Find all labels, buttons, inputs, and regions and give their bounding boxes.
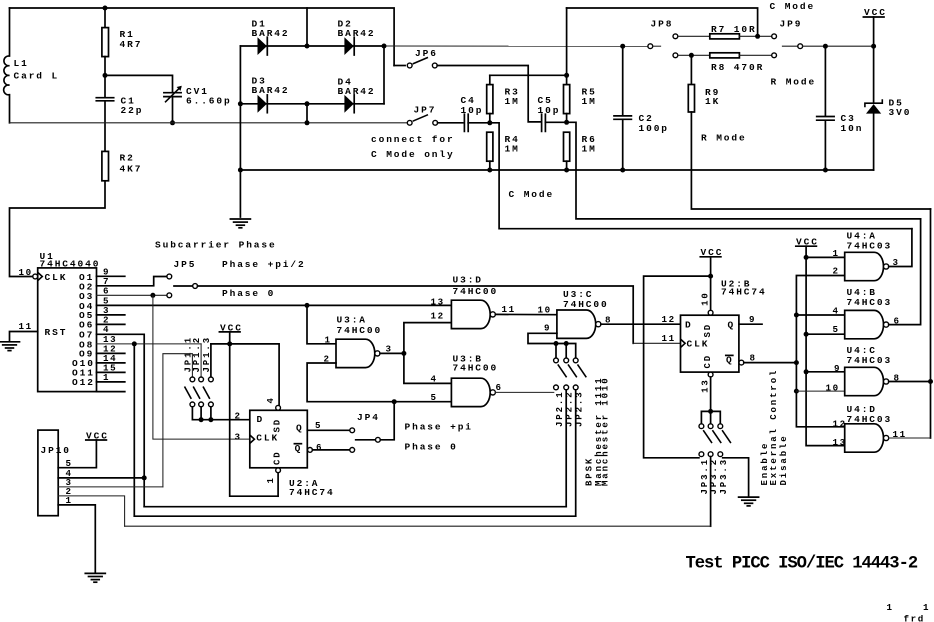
svg-text:3: 3 [235, 432, 242, 443]
svg-text:1: 1 [923, 602, 930, 613]
svg-text:74HC00: 74HC00 [453, 286, 499, 297]
svg-text:BAR42: BAR42 [252, 85, 290, 96]
wire top rail [10, 8, 395, 66]
node R6 rail junction [564, 168, 569, 173]
svg-text:22p: 22p [121, 105, 144, 116]
diode D2 [338, 19, 376, 55]
power VCC top right [863, 7, 886, 46]
wire U4:B pin4 [796, 314, 844, 316]
resistor R7 [678, 24, 772, 39]
wire D3-D4 row [240, 103, 384, 105]
pin O7 wire down [97, 334, 145, 506]
wire C-mode branch right [567, 122, 921, 219]
node R8-R9 junction [689, 53, 694, 58]
svg-text:1M: 1M [582, 96, 597, 107]
ground below diode ladder [230, 219, 250, 228]
svg-text:9: 9 [834, 363, 841, 374]
pin O11 stub [97, 371, 125, 373]
svg-text:10n: 10n [841, 123, 864, 134]
wire JP2.3 to bus2 [575, 390, 577, 516]
wire JP3.2 to bus3 [710, 457, 712, 527]
svg-text:1: 1 [103, 372, 110, 383]
nand gate U4:A 74HC03 [833, 231, 900, 281]
pin U2:B Qbar wire [739, 360, 744, 365]
svg-text:CD: CD [703, 354, 713, 369]
node VCC junction [227, 341, 232, 346]
wire D4 riser [383, 46, 385, 104]
resistor R5 [564, 8, 597, 122]
svg-text:11: 11 [502, 304, 516, 315]
svg-text:5: 5 [315, 420, 322, 431]
wire U4:B out [889, 219, 921, 325]
node JP1 tie junctions [199, 417, 204, 422]
diode D3 [252, 76, 290, 113]
node top-left junction [103, 6, 108, 11]
capacitor C1 [96, 75, 143, 151]
svg-text:C Mode: C Mode [509, 189, 555, 200]
wire JP10 pin4 [58, 477, 144, 479]
node VCC pin5 junction [804, 332, 809, 337]
svg-text:10: 10 [538, 304, 552, 315]
svg-text:12: 12 [431, 310, 445, 321]
wire D-row to low rail [306, 104, 308, 123]
jumper JP9 [772, 18, 874, 57]
nand gate U4:B 74HC03 [833, 287, 901, 339]
svg-text:Card L: Card L [14, 71, 60, 82]
nand gate U3:B 74HC00 [431, 353, 503, 406]
svg-text:CLK: CLK [687, 339, 710, 350]
svg-text:9: 9 [544, 323, 551, 334]
svg-text:10: 10 [19, 267, 33, 278]
jumper JP6 [394, 48, 540, 122]
node C4-R3-R4 junction [487, 120, 492, 125]
svg-text:1M: 1M [582, 143, 597, 154]
svg-text:4: 4 [431, 374, 438, 385]
resistor R9 [688, 55, 930, 209]
svg-text:Phase +pi/2: Phase +pi/2 [222, 259, 306, 270]
node R5 top junction [564, 73, 569, 78]
svg-text:R7 10R: R7 10R [711, 24, 757, 35]
svg-text:frd: frd [904, 614, 925, 622]
svg-text:1: 1 [266, 476, 276, 483]
wire U3:C pin9 hook [528, 333, 576, 358]
jumper JP4 [350, 402, 394, 453]
capacitor C2 [614, 46, 669, 170]
svg-text:74HC03: 74HC03 [847, 414, 893, 425]
node top-rail drop junction [305, 44, 310, 49]
wire JP10.3 riser to JP1 col1 [163, 354, 193, 487]
svg-text:Disable: Disable [779, 434, 789, 485]
wire U3:B output to JP2.1 [495, 391, 553, 393]
svg-text:5: 5 [833, 324, 840, 335]
pin O3 wire to JP5 [97, 294, 167, 296]
wire top rail right [567, 8, 758, 36]
node C2 rail junction [620, 168, 625, 173]
svg-text:BAR42: BAR42 [338, 86, 376, 97]
svg-text:4R7: 4R7 [120, 39, 143, 50]
wire U3:C output to U2:B D [601, 323, 681, 325]
svg-text:12: 12 [833, 418, 847, 429]
nand gate U3:C 74HC00 [538, 289, 613, 338]
svg-text:74HC00: 74HC00 [337, 325, 383, 336]
svg-text:JP4: JP4 [357, 412, 380, 423]
wire JP2.2 to bus1 [565, 390, 567, 507]
svg-text:CLK: CLK [256, 432, 279, 443]
resistor R4 [487, 132, 520, 170]
jumper block JP3 [699, 424, 731, 495]
svg-text:4K7: 4K7 [120, 164, 143, 175]
svg-text:R8 470R: R8 470R [711, 62, 764, 73]
jumper JP8 [648, 18, 678, 57]
svg-text:10p: 10p [461, 105, 484, 116]
svg-text:R Mode: R Mode [701, 132, 747, 143]
node VCC U2B junction [708, 274, 713, 279]
svg-text:74HC00: 74HC00 [453, 362, 499, 373]
svg-text:13: 13 [431, 296, 445, 307]
pin O2 wire to JP5 [97, 277, 167, 286]
wire bus1 [144, 506, 566, 508]
connector JP10 [38, 430, 73, 516]
wire low rail to JP7 [10, 122, 408, 124]
svg-text:BAR42: BAR42 [252, 28, 290, 39]
svg-text:BPSK: BPSK [585, 457, 595, 486]
node rail junction [238, 168, 243, 173]
wire JP10 pin3 [58, 486, 163, 488]
svg-text:13: 13 [701, 378, 711, 393]
wire VCC to JP3.1 feed [644, 276, 711, 458]
wire O3 down to U2:A clk [153, 295, 250, 439]
flip-flop U2:B 74HC74 [662, 278, 767, 393]
capacitor C5 [538, 95, 567, 131]
wire D1-D2 row [240, 45, 384, 47]
wire JP1 bottom tie to U2:A D [192, 407, 249, 420]
diode D1 [252, 19, 290, 55]
nand gate U3:A 74HC00 [324, 314, 393, 367]
svg-text:2: 2 [235, 411, 242, 422]
diode ladder vertical [239, 46, 241, 217]
nand gate U4:D 74HC03 [833, 404, 907, 452]
svg-text:C Mode: C Mode [770, 1, 816, 12]
svg-text:74HC74: 74HC74 [289, 487, 335, 498]
wire JP3 bracket [701, 411, 720, 423]
wire U3:A output [380, 352, 404, 354]
power VCC at JP1 [219, 322, 242, 344]
pin U2:A Qbar wire [308, 448, 313, 453]
svg-text:External Control: External Control [769, 369, 779, 486]
svg-text:11: 11 [19, 321, 33, 332]
node signal pin4 junction [794, 313, 799, 318]
svg-text:Q: Q [296, 423, 304, 434]
node O8 branch junction [132, 341, 137, 346]
jumper JP7 [407, 105, 462, 126]
wire hook drops [555, 344, 557, 359]
ground at JP3 [739, 497, 759, 506]
resistor R3 [487, 75, 520, 123]
svg-text:D: D [685, 320, 693, 331]
node O3 branch junction [150, 293, 155, 298]
pin O10 stub [97, 362, 125, 364]
resistor R6 [564, 132, 597, 170]
node R7-toprail junction [755, 34, 760, 39]
svg-text:74HC4040: 74HC4040 [40, 258, 101, 269]
node hook junctions [554, 341, 559, 346]
diode D4 [338, 77, 376, 113]
wire R-mode column [930, 209, 932, 438]
svg-text:JP10: JP10 [41, 445, 71, 456]
svg-text:Test PICC ISO/IEC 14443-2: Test PICC ISO/IEC 14443-2 [686, 555, 918, 574]
svg-text:C Mode only: C Mode only [371, 149, 455, 160]
jumper JP1 circles [185, 377, 214, 407]
svg-text:U3:D: U3:D [453, 275, 483, 286]
svg-text:JP2.1: JP2.1 [555, 390, 565, 427]
inductor L1 [4, 8, 59, 123]
svg-text:1K: 1K [705, 96, 720, 107]
svg-text:11: 11 [662, 333, 676, 344]
svg-text:Q: Q [728, 320, 736, 331]
pin O6 stub [97, 323, 125, 325]
svg-text:JP7: JP7 [414, 105, 437, 116]
wire bus3 [125, 525, 711, 527]
jumper block JP2 [554, 358, 587, 427]
nand gate U3:D 74HC00 [431, 275, 516, 329]
svg-text:JP9: JP9 [780, 18, 803, 29]
wire VCC rail to U2:A SD [211, 344, 279, 405]
svg-text:JP1.2: JP1.2 [192, 336, 202, 373]
wire to U3:D pin12 [404, 323, 452, 354]
variable capacitor CV1 [164, 86, 232, 123]
wire U4:C out [889, 381, 931, 383]
svg-text:CD: CD [272, 450, 282, 465]
node O4 branch junction [305, 303, 310, 308]
svg-text:Phase 0: Phase 0 [222, 288, 275, 299]
svg-text:L1: L1 [14, 58, 29, 69]
svg-text:SD: SD [703, 323, 713, 338]
node U4:C out junction [928, 379, 933, 384]
node D2-D4 junction [382, 44, 387, 49]
node signal Qbar junction [794, 360, 799, 365]
power VCC at JP10 [86, 430, 109, 441]
svg-text:JP3.3: JP3.3 [719, 458, 729, 495]
wire U4:A pin1 [806, 256, 845, 258]
wire U3:D out to U3:C pin10 [495, 313, 557, 315]
pin U2:B Q stub [739, 323, 762, 325]
node R1-C1-CV1 junction [103, 73, 108, 78]
svg-text:JP5: JP5 [174, 259, 197, 270]
svg-text:6: 6 [316, 442, 323, 453]
jumper block JP1 labels [183, 336, 212, 373]
svg-text:D: D [257, 414, 265, 425]
wire JP10 pin1 to ground [58, 505, 95, 573]
svg-text:Phase +pi: Phase +pi [405, 422, 473, 433]
pin O9 stub [97, 352, 125, 354]
svg-text:JP6: JP6 [415, 48, 438, 59]
wire JP10 pin2 to bus3 [58, 496, 124, 526]
node VCC-D5 junction [871, 44, 876, 49]
svg-text:74HC03: 74HC03 [847, 355, 893, 366]
svg-text:74HC00: 74HC00 [563, 299, 609, 310]
pin U2:A Q wire [307, 429, 350, 431]
svg-text:1: 1 [833, 248, 840, 259]
svg-text:O12: O12 [72, 377, 95, 388]
wire U2:A CD link [277, 473, 279, 496]
svg-text:1: 1 [325, 334, 332, 345]
capacitor C3 [817, 46, 864, 170]
resistor R2 [10, 151, 143, 276]
node C2 top junction [620, 44, 625, 49]
svg-text:SD: SD [272, 418, 282, 433]
pin 16 stub [97, 391, 125, 393]
ground at JP10 [85, 573, 105, 582]
wire to CV1 [105, 75, 173, 92]
pin O8 wire [97, 343, 202, 345]
pin O4 long wire to U3:D pin13 [97, 304, 452, 306]
node VCC pin9 junction [804, 369, 809, 374]
ground at U1 RST [0, 342, 20, 351]
capacitor C4 [461, 95, 490, 131]
svg-text:1M: 1M [505, 96, 520, 107]
wire JP1 col3 feed [210, 344, 212, 377]
nand gate U4:C 74HC03 [826, 345, 901, 396]
svg-text:U3:A: U3:A [337, 314, 367, 325]
wire U4 signal column [796, 276, 844, 427]
svg-text:4: 4 [266, 396, 276, 403]
node D3 row junction [238, 101, 243, 106]
pin O5 stub [97, 314, 125, 316]
jumper JP5 [167, 259, 198, 298]
node CV1 bottom junction [170, 120, 175, 125]
wire JP5 common to U2:B clk drop [198, 286, 634, 343]
diode D5 zener [865, 46, 911, 170]
wire U4:D out [889, 437, 931, 439]
svg-text:10: 10 [701, 291, 711, 306]
power VCC at U2:B [700, 247, 723, 310]
node R4 rail junction [487, 168, 492, 173]
svg-text:6: 6 [496, 382, 503, 393]
resistor R8 [678, 53, 772, 73]
svg-text:connect for: connect for [371, 134, 455, 145]
wire U2:B CLK from phase drop [633, 342, 680, 344]
svg-text:RST: RST [45, 327, 68, 338]
svg-text:3V0: 3V0 [889, 107, 912, 118]
wire U1 RST [10, 332, 38, 342]
wire U2:B CD to JP3 bracket [710, 377, 712, 424]
node D-row junction [305, 101, 310, 106]
node bracket junction [708, 409, 713, 414]
wire JP1 col2 feed from O8 [200, 344, 202, 377]
node C5-R5-R6 junction [564, 120, 569, 125]
node U3:A out junction [401, 351, 406, 356]
wire R3-R5 top link [490, 74, 567, 76]
wire U4:B pin5 [806, 333, 845, 335]
svg-text:10: 10 [826, 383, 840, 394]
wire VCC down to U2:A CD [230, 344, 278, 496]
resistor R1 [102, 8, 142, 75]
wire U4:C pin9 [806, 371, 845, 373]
svg-text:Manchester 1010: Manchester 1010 [601, 376, 611, 486]
svg-text:13: 13 [833, 437, 847, 448]
pin O12 stub [97, 381, 125, 383]
svg-text:100p: 100p [639, 123, 669, 134]
pin O1 stub [97, 275, 125, 277]
svg-text:4: 4 [833, 306, 840, 317]
node pin4 junction [142, 475, 147, 480]
svg-text:JP8: JP8 [651, 18, 674, 29]
svg-text:2: 2 [833, 265, 840, 276]
wire U3:A pin2 from U3:B pin5 riser [307, 363, 451, 402]
svg-text:6..60p: 6..60p [186, 95, 232, 106]
wire U4:A out [889, 229, 912, 267]
svg-text:1M: 1M [505, 143, 520, 154]
wire drop from top rail [306, 8, 308, 46]
svg-text:74HC03: 74HC03 [847, 297, 893, 308]
svg-text:74HC74: 74HC74 [721, 287, 767, 298]
power VCC at U4 [796, 237, 845, 446]
node low rail junction [305, 120, 310, 125]
wire C-mode branch left [490, 123, 912, 229]
node C3 rail junction [823, 168, 828, 173]
svg-text:5: 5 [431, 392, 438, 403]
svg-text:R Mode: R Mode [771, 76, 817, 87]
svg-text:R2: R2 [120, 153, 135, 164]
node VCC pin1 junction [804, 255, 809, 260]
wire to U3:B pin4 [404, 353, 452, 383]
svg-text:CLK: CLK [45, 272, 68, 283]
node signal pin10 junction [794, 389, 799, 394]
svg-text:1: 1 [887, 602, 894, 613]
wire ground rail [240, 169, 873, 171]
wire JP3.3 to ground [723, 458, 749, 497]
wire O8 down to bus [133, 344, 135, 516]
wire bus2 [134, 515, 575, 517]
node JP9-C3 junction [823, 44, 828, 49]
svg-text:12: 12 [662, 314, 676, 325]
wire U4:C pin10 [796, 390, 844, 392]
wire O4 branch to U3:A pin1 [307, 305, 336, 343]
node JP4 junction [392, 399, 397, 404]
IC U1 74HC4040 [19, 251, 101, 392]
svg-text:10p: 10p [538, 105, 561, 116]
wire JP10 pin5 to VCC [58, 440, 96, 468]
svg-text:Subcarrier Phase: Subcarrier Phase [155, 240, 277, 251]
svg-text:74HC03: 74HC03 [847, 241, 893, 252]
svg-text:Phase 0: Phase 0 [405, 441, 458, 452]
flip-flop U2:A 74HC74 [235, 396, 335, 498]
svg-text:BAR42: BAR42 [338, 28, 376, 39]
